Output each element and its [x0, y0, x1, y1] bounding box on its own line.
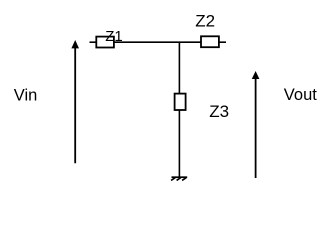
svg-text:Vin: Vin: [14, 87, 38, 105]
svg-text:Z2: Z2: [195, 12, 215, 31]
svg-text:Z3: Z3: [209, 102, 229, 121]
svg-text:Vout: Vout: [284, 86, 317, 104]
svg-text:Z1: Z1: [105, 28, 123, 45]
